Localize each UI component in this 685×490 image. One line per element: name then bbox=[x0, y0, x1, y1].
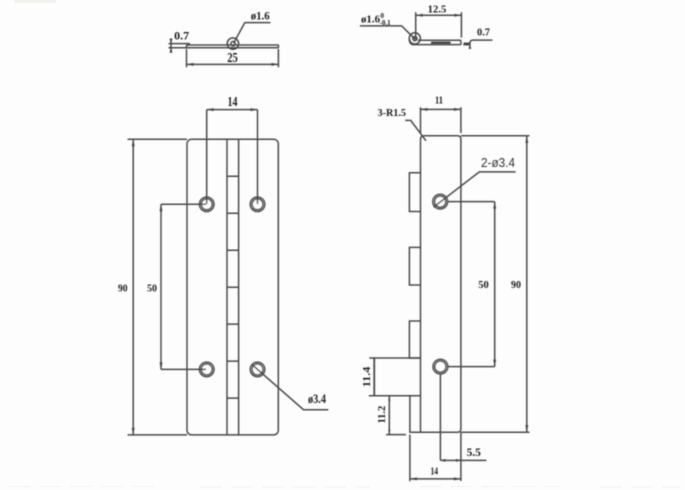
label dia 1.6 +0/-0.1 (view B) bbox=[361, 12, 391, 27]
view D: knuckle tab 1 bbox=[409, 173, 420, 212]
dimension 11.2 (view D bottom strip height) bbox=[386, 396, 406, 435]
dimension 14 (view D bottom width) bbox=[410, 435, 461, 482]
view D: bottom leaf protrusion 11.4 bbox=[374, 358, 420, 396]
view B: pin knuckle circle bbox=[409, 33, 420, 44]
svg-text:0.7: 0.7 bbox=[477, 28, 490, 39]
dimension 12.5 (view B) bbox=[416, 12, 462, 39]
view C: screw hole top-left bbox=[199, 197, 214, 212]
view D: bottom strip 11.2 bbox=[410, 396, 421, 433]
svg-text:ø3.4: ø3.4 bbox=[308, 391, 326, 406]
svg-text:50: 50 bbox=[478, 280, 489, 291]
dimension 25 (view A width) bbox=[187, 49, 279, 67]
view C: front view outer plate outline bbox=[187, 139, 278, 435]
svg-text:90: 90 bbox=[511, 280, 521, 291]
view A: pin knuckle circle bbox=[227, 38, 238, 49]
dimension 14 (view C hole spacing) bbox=[207, 108, 258, 204]
leader line for dia 1.6 (view A) bbox=[234, 23, 271, 44]
svg-text:14: 14 bbox=[228, 94, 238, 109]
svg-text:50: 50 bbox=[147, 284, 157, 295]
dimension 11 (view D plate width) bbox=[421, 107, 461, 133]
view C: knuckle joint ticks bbox=[227, 176, 239, 398]
dimension 0.7 (view B thickness) bbox=[463, 40, 492, 49]
view C: screw hole top-right bbox=[250, 197, 265, 212]
svg-text:25: 25 bbox=[227, 50, 238, 65]
svg-text:11.4: 11.4 bbox=[361, 366, 373, 387]
svg-text:14: 14 bbox=[431, 467, 439, 478]
view D: screw hole top bbox=[433, 194, 448, 209]
svg-text:90: 90 bbox=[118, 284, 128, 295]
svg-text:0.7: 0.7 bbox=[174, 31, 189, 43]
dimension 5.5 (view D hole offset) bbox=[440, 374, 486, 481]
leader line for dia 3.4 (view C) bbox=[252, 364, 329, 409]
view C: knuckle barrel line left bbox=[226, 139, 228, 435]
view D: knuckle tab 3 bbox=[409, 321, 420, 358]
leader line for dia 1.6 tolerance (view B) bbox=[360, 26, 415, 39]
view D: screw hole bottom bbox=[433, 359, 448, 374]
view D: knuckle tab 2 bbox=[409, 247, 420, 285]
svg-text:12.5: 12.5 bbox=[428, 5, 447, 16]
svg-text:11: 11 bbox=[435, 96, 443, 107]
svg-text:3-R1.5: 3-R1.5 bbox=[378, 107, 407, 119]
svg-text:ø1.6: ø1.6 bbox=[251, 8, 270, 22]
leader line for 2-dia 3.4 holes (view D) bbox=[434, 172, 516, 207]
view C: screw hole bottom-left bbox=[199, 362, 214, 377]
dimension 90 (view D height) bbox=[461, 136, 530, 433]
dimension 50 (view D hole pitch) bbox=[448, 202, 497, 367]
view B: middle knuckle slot edge mark bbox=[431, 42, 451, 44]
svg-text:11.2: 11.2 bbox=[376, 405, 388, 423]
faint scan artifact top-left bbox=[14, 0, 56, 3]
svg-text:5.5: 5.5 bbox=[467, 447, 482, 459]
dimension 50 (view C hole pitch) bbox=[160, 204, 207, 369]
dimension 11.4 (view D protrusion height) bbox=[369, 358, 375, 396]
view D: side view main plate outline bbox=[421, 136, 461, 433]
dimension 0.7 (view A thickness) bbox=[169, 39, 191, 53]
view C: screw hole bottom-right bbox=[250, 362, 265, 377]
svg-text:-0.1: -0.1 bbox=[380, 19, 392, 27]
view B: hinge open side view leaf strip bbox=[409, 39, 461, 45]
leader line for 3-R1.5 corner radius (view D) bbox=[405, 120, 426, 140]
view C: knuckle barrel line right bbox=[238, 139, 240, 435]
view A: hinge closed side view leaf strip bbox=[187, 45, 279, 48]
svg-text:2-ø3.4: 2-ø3.4 bbox=[481, 155, 515, 170]
dimension 90 (view C height) bbox=[128, 139, 188, 435]
faint scan artifact bottom band bbox=[8, 486, 680, 489]
svg-text:ø1.6: ø1.6 bbox=[361, 14, 380, 26]
